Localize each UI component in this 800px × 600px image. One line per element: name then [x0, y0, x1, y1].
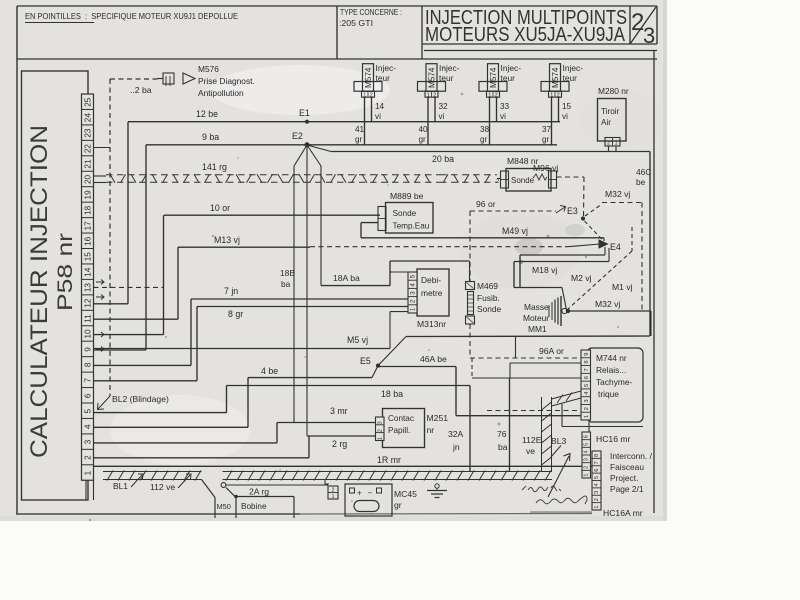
svg-text:CALCULATEUR INJECTION: CALCULATEUR INJECTION [26, 125, 53, 458]
svg-text:1: 1 [584, 473, 590, 476]
wire M1 vj dashed [631, 227, 633, 251]
shielded bus BL1 right section [223, 471, 553, 473]
svg-text:Injec-: Injec- [501, 63, 522, 73]
svg-text:7 jn: 7 jn [224, 286, 238, 296]
wire 8 gr [197, 306, 408, 308]
svg-text:18B: 18B [280, 268, 295, 278]
svg-text:3: 3 [84, 439, 93, 444]
svg-text:Contac: Contac [388, 414, 414, 423]
node E5 [376, 364, 380, 368]
svg-text:Injec-: Injec- [563, 63, 584, 73]
svg-text:6: 6 [84, 393, 93, 398]
debimetre pin strip [408, 272, 417, 313]
svg-text:41: 41 [355, 125, 365, 134]
svg-text:38: 38 [480, 125, 490, 134]
wire 12 be [128, 121, 560, 123]
svg-text:19: 19 [84, 190, 93, 200]
svg-text:E4: E4 [610, 242, 621, 252]
svg-text:teur: teur [563, 73, 578, 83]
svg-text:Bobine: Bobine [241, 502, 267, 511]
dashed relay wire [487, 410, 581, 412]
svg-text:8: 8 [584, 360, 590, 363]
svg-text:20: 20 [84, 174, 93, 184]
wire 1R mr [94, 465, 593, 467]
wire 18A ba [321, 285, 390, 287]
svg-text:13: 13 [84, 283, 93, 293]
svg-text:15: 15 [562, 102, 572, 111]
wire M96 vj dashed [557, 176, 585, 178]
wire 46C be return line [406, 335, 650, 338]
svg-text:22: 22 [84, 144, 93, 154]
wire M32 vj lower [568, 310, 651, 312]
wire 4 be [248, 377, 372, 379]
svg-text:gr: gr [355, 135, 363, 144]
tiroir air M280 box [598, 99, 627, 142]
wire 10 or [164, 214, 380, 216]
shielded cable 141rg end at M848 [440, 174, 497, 176]
svg-text:Sonde: Sonde [477, 304, 502, 314]
hatch from riser to relay pins [552, 391, 582, 399]
wire M18 vj [604, 247, 606, 255]
wire M13 vj [178, 246, 310, 248]
node E4 arrow [599, 240, 608, 248]
svg-text:5: 5 [584, 384, 590, 387]
alternator MC45 box [345, 484, 392, 516]
svg-text:12: 12 [84, 298, 93, 308]
ground symbol [435, 484, 439, 488]
pin arrow marks [96, 280, 104, 285]
svg-text:5: 5 [84, 409, 93, 414]
svg-text:Debi-: Debi- [421, 275, 441, 285]
svg-text:Injec-: Injec- [439, 63, 460, 73]
svg-text:4: 4 [594, 483, 600, 486]
injector wire 40 gr [427, 97, 429, 145]
svg-text:Moteur: Moteur [523, 313, 549, 323]
node E1 [305, 120, 309, 124]
calculateur connector strip pins 1-25 [82, 94, 94, 480]
injector M574 at x=555 [550, 64, 561, 91]
svg-text:E1: E1 [299, 108, 310, 118]
svg-text:E2: E2 [292, 131, 303, 141]
dashed wire fuse to 96A or [469, 324, 471, 356]
wire M49 vj dashed [310, 246, 568, 248]
injector wire 37 gr [551, 97, 553, 145]
svg-text:metre: metre [421, 288, 443, 298]
svg-text:1R mr: 1R mr [377, 455, 401, 465]
svg-text:18A ba: 18A ba [333, 273, 360, 283]
svg-text:5: 5 [594, 476, 600, 479]
injector wire 33 vi [496, 97, 498, 122]
svg-text:23: 23 [84, 128, 93, 138]
wire 2 ba dashed to diagnostic plug [110, 78, 161, 80]
svg-text:Page 2/1: Page 2/1 [610, 484, 644, 494]
svg-text:1: 1 [378, 437, 384, 440]
dashed link E3 to E4 [585, 221, 604, 241]
dashed box 96 or [470, 210, 556, 212]
svg-text:Prise Diagnost.: Prise Diagnost. [198, 76, 255, 86]
svg-text:3: 3 [643, 23, 655, 48]
coil connector M50 [202, 480, 216, 498]
wire M5 vj [94, 348, 391, 350]
svg-text:21: 21 [84, 159, 93, 169]
svg-text:1: 1 [614, 141, 617, 147]
node E2 junction [305, 142, 310, 147]
svg-text:TYPE CONCERNE :: TYPE CONCERNE : [340, 8, 402, 17]
svg-text:M5 vj: M5 vj [347, 335, 368, 345]
svg-text:ve: ve [526, 446, 535, 456]
svg-text:M313nr: M313nr [417, 319, 446, 329]
wire 18A riser to fuse [389, 261, 391, 286]
svg-text:be: be [636, 177, 646, 187]
svg-text:M251: M251 [427, 413, 449, 423]
wire 2 rg [94, 457, 310, 459]
svg-text:M49 vj: M49 vj [502, 226, 528, 236]
svg-text:4: 4 [584, 450, 590, 453]
svg-text:33: 33 [500, 102, 510, 111]
node E3 [581, 216, 585, 220]
M280 pin box 2|1 [605, 138, 620, 147]
dashed wire on fuse branch [469, 211, 471, 282]
svg-text:9 ba: 9 ba [202, 132, 219, 142]
svg-text:7: 7 [594, 461, 600, 464]
svg-text:4 be: 4 be [261, 366, 278, 376]
svg-text:2: 2 [584, 466, 590, 469]
handwritten annotation with arrow [548, 454, 570, 498]
fan wires from E2 [294, 145, 307, 166]
svg-text:15: 15 [84, 252, 93, 262]
svg-text:Faisceau: Faisceau [610, 462, 644, 472]
M251 pin strip [376, 417, 385, 441]
svg-text:9: 9 [84, 347, 93, 352]
svg-text:6: 6 [594, 469, 600, 472]
svg-text:8 gr: 8 gr [228, 309, 243, 319]
svg-text:Fusib.: Fusib. [477, 293, 500, 303]
svg-text:46C: 46C [636, 167, 651, 177]
svg-text:9: 9 [584, 353, 590, 356]
debimetre M313 box [417, 269, 449, 316]
connector HC16 [582, 432, 591, 478]
svg-text:112 ve: 112 ve [150, 482, 175, 492]
wire 96A or dashed [470, 357, 581, 359]
injector M574 at x=493 [488, 64, 499, 91]
svg-text:ba: ba [281, 279, 291, 289]
bobine box [236, 496, 294, 498]
svg-text:MC45: MC45 [394, 489, 417, 499]
svg-text:jn: jn [452, 442, 460, 452]
diagnostic plug symbol M576 [157, 78, 163, 80]
svg-text:112E: 112E [522, 435, 542, 445]
svg-text:M576: M576 [198, 64, 219, 74]
injector M574 at x=368 [363, 64, 374, 91]
svg-text:M280 nr: M280 nr [598, 86, 629, 96]
svg-text:gr: gr [480, 135, 488, 144]
svg-text:17: 17 [84, 221, 93, 231]
svg-text:11: 11 [84, 314, 93, 323]
M848 left pin [501, 171, 509, 188]
relais tachymetrique M744 box [587, 348, 643, 422]
svg-text:M744 nr: M744 nr [596, 353, 627, 363]
svg-text:6: 6 [584, 376, 590, 379]
svg-text:M574: M574 [551, 67, 560, 88]
svg-text:46A be: 46A be [420, 354, 447, 364]
svg-text:40: 40 [419, 125, 429, 134]
svg-text:Sonde: Sonde [511, 176, 535, 185]
svg-text:2: 2 [594, 498, 600, 501]
svg-text:EN POINTILLES : SPECIFIQUE M: EN POINTILLES : SPECIFIQUE MOTEUR XU9J1 … [25, 11, 238, 21]
shielded cable 141 rg [106, 174, 440, 176]
svg-text:vi: vi [439, 112, 445, 121]
wire to 2 rg vertical [306, 166, 308, 436]
svg-text:6: 6 [584, 435, 590, 438]
svg-text:32A: 32A [448, 429, 464, 439]
svg-text:2: 2 [332, 488, 335, 494]
svg-text:M32 vj: M32 vj [595, 299, 620, 309]
wire 7 jn [191, 298, 408, 300]
engine ground MM1 symbol [548, 305, 550, 317]
header divider lines [336, 6, 338, 59]
M848 right pin [549, 171, 557, 188]
svg-text:M13 vj: M13 vj [214, 235, 240, 245]
svg-text:2: 2 [607, 141, 610, 147]
svg-text:−: − [368, 489, 373, 498]
frame under relay [561, 404, 563, 427]
svg-text:96 or: 96 or [476, 199, 496, 209]
svg-text:P58 nr: P58 nr [54, 233, 77, 311]
svg-text:Tiroir: Tiroir [601, 107, 620, 116]
svg-text:M574: M574 [489, 67, 498, 88]
svg-text:..2 ba: ..2 ba [130, 85, 152, 95]
wire 3 mr [94, 442, 278, 444]
svg-text:14: 14 [84, 267, 93, 277]
svg-text:1: 1 [594, 505, 600, 508]
svg-text:Injec-: Injec- [376, 63, 397, 73]
svg-text:trique: trique [598, 389, 619, 399]
svg-text:M574: M574 [428, 67, 437, 88]
svg-text:10: 10 [84, 329, 93, 339]
M889 pin connector [378, 207, 386, 231]
svg-text:teur: teur [376, 73, 391, 83]
wire 18B ba vertical [293, 166, 295, 423]
svg-text:Papill.: Papill. [388, 426, 410, 435]
svg-text:M50: M50 [217, 502, 231, 511]
main frame bottom edge [16, 513, 300, 515]
svg-text:8: 8 [594, 454, 600, 457]
svg-text:E3: E3 [567, 206, 578, 216]
wire to 18A ba vertical [320, 166, 322, 286]
svg-text:M32 vj: M32 vj [605, 189, 630, 199]
svg-text:M18 vj: M18 vj [532, 265, 557, 275]
svg-text:Masse: Masse [524, 302, 549, 312]
wire 32A jn vertical [469, 386, 471, 472]
svg-text:8: 8 [84, 362, 93, 367]
svg-text:Temp.Eau: Temp.Eau [393, 222, 430, 231]
svg-text:18: 18 [84, 205, 93, 215]
svg-text:7: 7 [584, 368, 590, 371]
injector wire 38 gr [489, 97, 491, 145]
svg-text:2A rg: 2A rg [249, 487, 269, 497]
connector HC16A [592, 451, 601, 510]
svg-text:4: 4 [84, 424, 93, 429]
svg-text:M469: M469 [477, 281, 498, 291]
svg-text:Antipollution: Antipollution [198, 88, 244, 98]
injector wire 15 vi [558, 97, 560, 122]
svg-text:M1 vj: M1 vj [612, 282, 633, 292]
svg-text:vi: vi [562, 112, 568, 121]
svg-text:25: 25 [84, 97, 93, 107]
svg-text:BL1: BL1 [113, 481, 128, 491]
svg-text:BL2 (Blindage): BL2 (Blindage) [112, 394, 169, 404]
debimetre pin1 wire [390, 311, 408, 313]
svg-text::205 GTI: :205 GTI [339, 19, 373, 28]
svg-text:3: 3 [378, 421, 384, 424]
wire M889 loop to E4 [361, 222, 378, 224]
injector wire 14 vi [371, 97, 373, 122]
svg-text:MOTEURS XU5JA-XU9JA: MOTEURS XU5JA-XU9JA [425, 24, 626, 46]
contact papillon M251 box [383, 409, 425, 448]
M744 pin strip [581, 350, 591, 420]
svg-text:Air: Air [601, 118, 611, 127]
svg-text:12 be: 12 be [196, 109, 218, 119]
svg-text:gr: gr [394, 500, 402, 510]
svg-text:24: 24 [84, 113, 93, 123]
svg-text:20 ba: 20 ba [432, 154, 454, 164]
svg-text:96A or: 96A or [539, 346, 564, 356]
header frame [17, 5, 657, 7]
svg-text:Project.: Project. [610, 473, 638, 483]
fusible sonde M469 [466, 282, 475, 290]
svg-text:teur: teur [501, 73, 516, 83]
svg-text:vi: vi [375, 112, 381, 121]
svg-text:1: 1 [84, 470, 93, 475]
svg-text:2: 2 [584, 407, 590, 410]
svg-text:vi: vi [500, 112, 506, 121]
svg-text:BL3: BL3 [551, 436, 567, 446]
svg-text:32: 32 [439, 102, 449, 111]
svg-text:141 rg: 141 rg [202, 162, 227, 172]
connector strip bottom stub [85, 480, 87, 500]
wire 46C be [649, 152, 651, 337]
title box inner lines [422, 43, 657, 45]
svg-text:Interconn. /: Interconn. / [610, 451, 653, 461]
wire 76 ba vertical [509, 378, 511, 471]
wire merge to engine ground [514, 287, 562, 289]
wire 18 ba [94, 412, 227, 414]
svg-text:gr: gr [419, 135, 427, 144]
main frame right edge [653, 51, 655, 514]
scan speckles [212, 235, 214, 237]
wire M2 vj [608, 248, 610, 262]
wire 46A be [378, 366, 456, 368]
svg-text:Tachyme-: Tachyme- [596, 377, 633, 387]
svg-text:14: 14 [375, 102, 385, 111]
svg-text:M96 vj: M96 vj [533, 163, 558, 173]
shielded bus BL1 left section [103, 471, 202, 473]
svg-text:1: 1 [332, 494, 335, 500]
svg-text:5: 5 [584, 443, 590, 446]
svg-text:16: 16 [84, 236, 93, 246]
svg-text:76: 76 [497, 429, 507, 439]
svg-text:M2 vj: M2 vj [571, 273, 592, 283]
small connector at 2A rg end [328, 486, 338, 499]
injector wire 41 gr [364, 97, 366, 145]
svg-text:18 ba: 18 ba [381, 389, 403, 399]
page number cell 2/3 [629, 6, 631, 44]
svg-text:MM1: MM1 [528, 324, 547, 334]
svg-text:Sonde: Sonde [393, 209, 417, 218]
wire M32 vj dashed upper [585, 204, 602, 216]
svg-text:nr: nr [427, 425, 435, 435]
svg-text:3: 3 [584, 399, 590, 402]
injector M574 at x=431.5 [426, 64, 437, 91]
svg-text:10 or: 10 or [210, 203, 230, 213]
svg-text:37: 37 [542, 125, 552, 134]
wire 2A rg [226, 484, 328, 486]
svg-text:2: 2 [378, 429, 384, 432]
svg-text:E5: E5 [360, 356, 371, 366]
svg-text:M889 be: M889 be [390, 191, 424, 201]
svg-text:1: 1 [584, 415, 590, 418]
svg-text:2: 2 [84, 455, 93, 460]
svg-text:+: + [357, 489, 362, 498]
svg-text:ba: ba [498, 442, 508, 452]
calculateur injection box P58 [22, 71, 89, 500]
wire 9 ba [146, 144, 557, 146]
injector wire 32 vi [434, 97, 436, 122]
svg-text:HC16 mr: HC16 mr [596, 434, 631, 444]
svg-text:3: 3 [584, 458, 590, 461]
svg-text:3 mr: 3 mr [330, 406, 348, 416]
svg-text:2 rg: 2 rg [332, 439, 347, 449]
svg-text:gr: gr [542, 135, 550, 144]
shield riser BL3 [541, 397, 543, 472]
svg-text:M574: M574 [364, 67, 373, 88]
svg-text:teur: teur [439, 73, 454, 83]
shield BL2 dashed line [109, 79, 111, 396]
svg-text:Relais...: Relais... [596, 365, 626, 375]
svg-text:3: 3 [594, 491, 600, 494]
relay feed wires [510, 362, 581, 364]
svg-text:7: 7 [84, 378, 93, 383]
svg-text:HC16A mr: HC16A mr [603, 508, 643, 518]
wire 20 ba to tiroir air [331, 151, 650, 153]
